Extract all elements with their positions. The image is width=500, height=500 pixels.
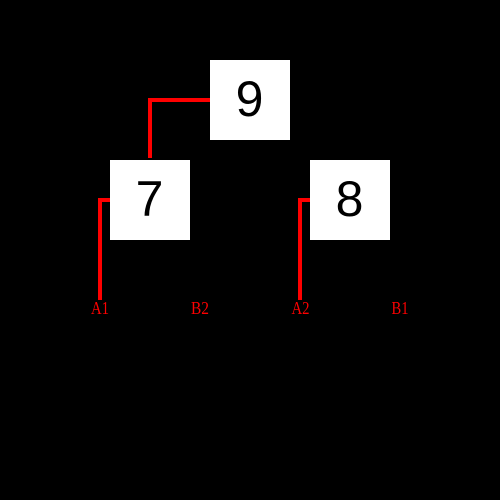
wire A2 to box 8 <box>300 200 310 300</box>
svg-text:A2: A2 <box>292 298 310 318</box>
box 7 <box>110 160 190 240</box>
svg-text:B2: B2 <box>191 298 209 318</box>
svg-text:9: 9 <box>236 71 264 127</box>
wire box 7 to box 9 <box>150 100 210 158</box>
svg-text:B1: B1 <box>392 298 409 318</box>
svg-text:7: 7 <box>136 171 164 227</box>
svg-text:8: 8 <box>336 171 364 227</box>
box 8 <box>310 160 390 240</box>
wire A1 to box 7 <box>100 200 110 300</box>
box 9 <box>210 60 290 140</box>
svg-text:A1: A1 <box>91 298 109 318</box>
